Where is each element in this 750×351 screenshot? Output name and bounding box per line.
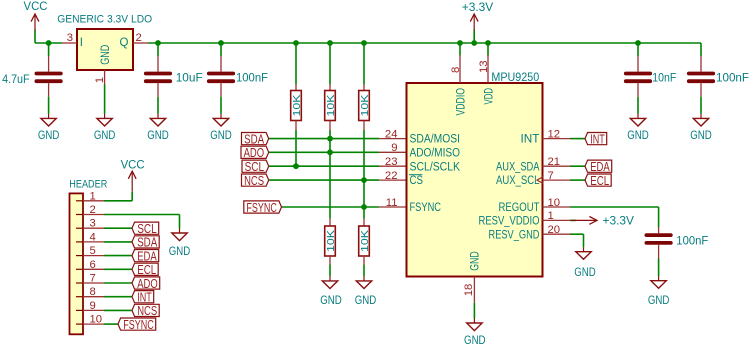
svg-text:GND: GND xyxy=(355,293,377,307)
svg-text:FSYNC: FSYNC xyxy=(246,200,277,215)
svg-text:ECL: ECL xyxy=(590,173,609,188)
svg-text:GND: GND xyxy=(320,293,342,307)
svg-text:EDA: EDA xyxy=(590,159,610,174)
svg-text:4: 4 xyxy=(90,231,96,243)
svg-text:REGOUT: REGOUT xyxy=(499,202,540,214)
svg-text:RESV_VDDIO: RESV_VDDIO xyxy=(479,216,540,228)
svg-text:Q: Q xyxy=(120,37,129,49)
svg-text:GND: GND xyxy=(210,128,232,142)
svg-text:HEADER: HEADER xyxy=(69,179,107,191)
svg-text:GENERIC 3.3V LDO: GENERIC 3.3V LDO xyxy=(57,13,152,25)
svg-text:8: 8 xyxy=(450,67,462,73)
svg-text:100nF: 100nF xyxy=(676,233,708,247)
svg-text:GND: GND xyxy=(627,128,649,142)
svg-text:9: 9 xyxy=(90,300,96,312)
svg-text:GND: GND xyxy=(98,45,112,65)
svg-text:+3.3V: +3.3V xyxy=(462,0,494,14)
svg-text:GND: GND xyxy=(648,293,670,307)
svg-text:SDA/MOSI: SDA/MOSI xyxy=(410,134,461,146)
svg-text:10K: 10K xyxy=(325,95,337,117)
svg-text:GND: GND xyxy=(147,128,169,142)
svg-text:FSYNC: FSYNC xyxy=(410,202,442,214)
svg-text:INT: INT xyxy=(590,131,605,146)
svg-text:I: I xyxy=(80,37,83,49)
svg-text:SCL/SCLK: SCL/SCLK xyxy=(410,161,461,173)
svg-text:FSYNC: FSYNC xyxy=(123,317,154,332)
svg-text:11: 11 xyxy=(386,197,398,209)
svg-text:ADO/MISO: ADO/MISO xyxy=(410,147,461,159)
svg-text:24: 24 xyxy=(385,128,398,140)
svg-text:22: 22 xyxy=(385,170,398,182)
svg-text:GND: GND xyxy=(574,265,596,279)
svg-text:10uF: 10uF xyxy=(176,70,203,84)
svg-text:GND: GND xyxy=(169,244,191,258)
svg-text:RESV_GND: RESV_GND xyxy=(489,229,540,241)
svg-text:10K: 10K xyxy=(359,95,371,117)
svg-text:ADO: ADO xyxy=(244,145,265,160)
svg-text:10K: 10K xyxy=(359,230,371,252)
svg-text:3: 3 xyxy=(90,218,96,230)
svg-text:SCL: SCL xyxy=(245,159,265,174)
svg-text:2: 2 xyxy=(136,32,142,44)
svg-text:GND: GND xyxy=(468,251,482,271)
svg-text:AUX_SCL: AUX_SCL xyxy=(496,175,540,187)
svg-text:2: 2 xyxy=(90,204,96,216)
svg-text:9: 9 xyxy=(391,142,397,154)
svg-text:100nF: 100nF xyxy=(236,70,268,84)
svg-text:GND: GND xyxy=(38,128,60,142)
svg-text:6: 6 xyxy=(90,259,96,271)
svg-text:10: 10 xyxy=(90,314,103,326)
svg-text:100nF: 100nF xyxy=(716,70,749,84)
svg-text:CS: CS xyxy=(410,175,424,187)
svg-text:5: 5 xyxy=(90,245,96,257)
svg-text:23: 23 xyxy=(385,156,398,168)
svg-text:1: 1 xyxy=(94,77,106,83)
svg-text:10nF: 10nF xyxy=(652,70,676,84)
svg-text:GND: GND xyxy=(94,128,116,142)
svg-text:VCC: VCC xyxy=(121,158,145,172)
svg-text:7: 7 xyxy=(90,273,96,285)
svg-text:+3.3V: +3.3V xyxy=(603,214,635,228)
svg-text:GND: GND xyxy=(690,128,712,142)
svg-text:18: 18 xyxy=(463,284,475,297)
svg-text:8: 8 xyxy=(90,286,96,298)
svg-text:INT: INT xyxy=(521,134,540,146)
svg-text:13: 13 xyxy=(478,60,490,73)
svg-text:VCC: VCC xyxy=(24,0,48,13)
svg-text:4.7uF: 4.7uF xyxy=(2,72,30,86)
svg-text:VDD: VDD xyxy=(482,88,496,105)
svg-text:VDDIO: VDDIO xyxy=(454,88,468,116)
svg-text:NCS: NCS xyxy=(244,173,264,188)
svg-text:10K: 10K xyxy=(325,230,337,252)
svg-text:3: 3 xyxy=(67,32,73,44)
svg-text:1: 1 xyxy=(90,190,96,202)
svg-text:GND: GND xyxy=(464,333,486,346)
svg-text:AUX_SDA: AUX_SDA xyxy=(496,161,540,173)
svg-text:10K: 10K xyxy=(291,95,303,117)
svg-text:MPU9250: MPU9250 xyxy=(491,70,539,84)
